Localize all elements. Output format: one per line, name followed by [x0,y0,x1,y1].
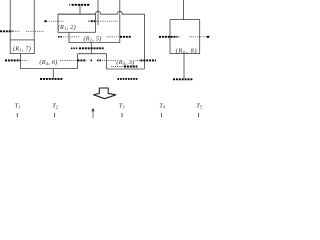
row D: bold dots 58-62.3 [58,36,62,38]
svg-text:T1: T1 [15,102,21,109]
svg-text:(R3, 7): (R3, 7) [13,45,31,52]
svg-text:(R6, 8): (R6, 8) [176,47,198,54]
row D: light 178-180.4 [178,36,180,38]
svg-text:T4: T4 [159,102,165,109]
svg-text:(R4, 6): (R4, 6) [39,59,57,66]
row D: bold 120-131.2 [120,36,131,38]
row F: light 20.6-27 [21,59,27,61]
tick T3 [121,113,123,117]
row F: dot 90.5-92 [91,59,93,61]
row H: bold 40-62.3 [40,78,62,80]
row B: light 96-117.5 [96,20,117,22]
row D: light 189.5-206.5 [190,36,207,38]
box R3 [10,40,34,54]
row D: bold end 206.7-209.3 [207,36,210,38]
svg-text:T5: T5 [196,102,202,109]
row C: light 26-44 [26,30,44,32]
row D: light 63-79.3 [63,36,79,38]
svg-text:T2: T2 [52,102,58,109]
tick T2 [54,113,56,117]
wire h53 [77,53,106,55]
row F: bold 5-20.2 [5,59,20,61]
row F: bold 97-101.2 [97,59,101,61]
row H: bold 117.5-137.4 [118,78,138,80]
wire v2 [33,0,35,40]
wire v4 [97,0,99,25]
box R1 [58,14,95,32]
row F: light 60-77.2 [60,59,77,61]
row H: bold 173-193.3 [173,78,193,80]
row B: light dots 47.4-64.4 [48,20,65,22]
svg-text:(R5, 3): (R5, 3) [116,59,134,66]
row E: bold dots 71-77.3 [71,47,77,49]
row F: light 102-116 [102,59,116,61]
row C: light 12.9-19.2 [13,30,19,32]
wire w91 [90,43,92,54]
svg-text:T3: T3 [119,102,125,109]
svg-text:(R2, 5): (R2, 5) [83,35,101,42]
tick T4 [161,113,163,117]
row F: bold 77.5-86.4 [78,59,87,61]
row C: bold 0-12.5 [0,30,13,32]
wire v8 below box R6 [183,54,185,79]
wire v5 with corner to left [69,0,120,43]
wire v1 [9,0,11,40]
tick T1 [16,113,18,117]
row D: light 106.6-119.5 [107,36,120,38]
wire h1 with hops [58,11,144,68]
wire w106 + h69R [107,54,145,69]
row G: light 111.4-123.6 [111,66,123,68]
wire w77 + h68L [21,54,78,69]
row F: bold 140.4-156 [140,59,156,61]
svg-text:(R1, 2): (R1, 2) [58,24,76,31]
row B: bold 44.6-46.4 [44,20,46,22]
wire v6 [183,0,185,20]
row E: bold 79-103.7 [79,47,104,49]
row D: bold 159-177.5 [159,36,178,38]
row B: dot at 89 + bold 91-95 [89,20,90,22]
box R6 [170,20,200,54]
tick T5 [198,113,200,117]
wire v3 [79,5,81,14]
small up arrow at insertion point [91,108,94,119]
lifetime bar row A (top, x69-89) bold [69,4,90,6]
row G: bold 124-137.4 [124,66,137,68]
row F: light 135.5-140 [136,59,141,61]
wire w53 [52,69,54,78]
big hollow down arrow [94,88,116,99]
